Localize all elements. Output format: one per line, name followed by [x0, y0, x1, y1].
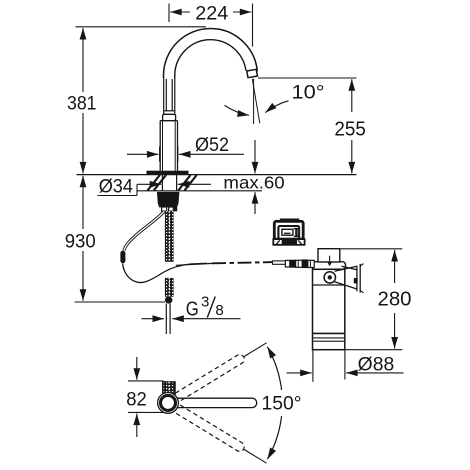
bottom view base circle [158, 393, 179, 414]
bottom view dashed spout lower [175, 405, 269, 467]
filter inlet tube [273, 261, 286, 264]
dash-dot hose line to filter [212, 262, 274, 263]
clamp screw [324, 272, 335, 283]
svg-text:Ø34: Ø34 [99, 176, 134, 197]
aerator [247, 69, 258, 77]
thin hose from spray tip [123, 263, 207, 282]
svg-text:G: G [186, 299, 199, 321]
filter head band [312, 262, 346, 270]
dimension max.60 [254, 140, 256, 214]
dimension 381 [76, 27, 207, 174]
dimension 280 [340, 249, 403, 350]
spray hose end cap [120, 251, 125, 264]
wall bracket [335, 264, 364, 293]
branch hose line to filter [176, 263, 213, 265]
svg-text:3: 3 [201, 293, 209, 310]
svg-text:10°: 10° [292, 82, 325, 103]
countertop bottom line [138, 190, 263, 192]
countertop hatch right of shank [178, 175, 196, 191]
countertop top line [77, 174, 357, 176]
svg-text:381: 381 [67, 93, 97, 114]
tilted spout axis line 10 deg [252, 79, 259, 124]
filter head cap [318, 249, 340, 262]
inlet fitting E [308, 260, 314, 267]
supply pipe below bead [165, 303, 167, 334]
faucet base plate [147, 171, 189, 175]
filter cartridge cylinder [313, 269, 345, 349]
filter control box icon [273, 219, 304, 245]
G 3/8 connection bead [165, 296, 173, 303]
joint ring [163, 114, 176, 120]
spout gooseneck inner curve [175, 40, 246, 78]
dimension 82 [128, 357, 164, 437]
braided supply hose upper part [165, 211, 174, 262]
mounting shank through counter [162, 175, 176, 191]
svg-text:82: 82 [126, 389, 147, 410]
pull-out spray hose [124, 211, 164, 250]
svg-text:Ø52: Ø52 [195, 135, 229, 156]
bottom view hatched wall block [163, 382, 175, 395]
dimension 930 [75, 176, 166, 302]
svg-text:280: 280 [378, 289, 412, 311]
swivel arc 150 deg lower [267, 416, 281, 459]
vertical reference line at spout tip [253, 79, 255, 124]
spout gooseneck outer curve [164, 29, 258, 79]
dimension 255 [258, 78, 357, 173]
swivel arc 150 deg upper [267, 347, 281, 390]
G 3/8 arrows [142, 318, 165, 320]
faucet column [160, 121, 177, 171]
inlet fitting C [296, 260, 303, 267]
angle arc arrows [225, 105, 250, 115]
dimension diameter 34 with leader [98, 184, 212, 195]
head marker triangle [329, 256, 331, 262]
inlet fitting A [285, 260, 289, 267]
svg-text:150°: 150° [262, 393, 302, 414]
braided supply hose lower part [165, 278, 174, 297]
dimension diameter 88 [287, 351, 404, 382]
mounting nut below counter [157, 192, 180, 208]
bottom view spout solid position [177, 398, 257, 407]
svg-text:224: 224 [195, 3, 228, 24]
riser tube [164, 77, 175, 114]
bottom view dashed spout upper [175, 339, 269, 401]
svg-text:max.60: max.60 [223, 173, 285, 193]
svg-text:255: 255 [334, 118, 366, 140]
svg-text:Ø88: Ø88 [358, 354, 395, 375]
dimension diameter 52 [127, 147, 244, 162]
hose nipples [162, 207, 167, 211]
svg-text:930: 930 [65, 231, 96, 252]
svg-text:8: 8 [215, 302, 223, 319]
inlet fitting D [302, 259, 308, 268]
countertop hatch left of shank [148, 175, 167, 191]
dimension 224 [169, 4, 253, 47]
inlet fitting B [290, 260, 296, 268]
